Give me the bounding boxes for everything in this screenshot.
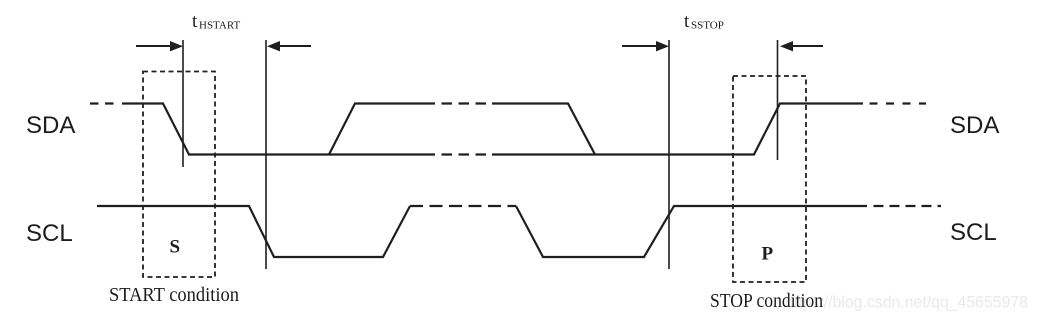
svg-text:S: S — [170, 237, 181, 258]
svg-text:t: t — [192, 11, 198, 32]
svg-text:SDA: SDA — [26, 112, 75, 139]
svg-text:P: P — [762, 244, 774, 265]
svg-text:SSTOP: SSTOP — [691, 20, 724, 32]
svg-text:SCL: SCL — [26, 220, 73, 247]
svg-text:HSTART: HSTART — [199, 20, 241, 32]
svg-text:t: t — [684, 11, 690, 32]
svg-text:START condition: START condition — [109, 284, 239, 306]
svg-text:SCL: SCL — [950, 219, 997, 246]
svg-text:SDA: SDA — [950, 112, 999, 139]
svg-text:STOP condition: STOP condition — [710, 290, 823, 312]
